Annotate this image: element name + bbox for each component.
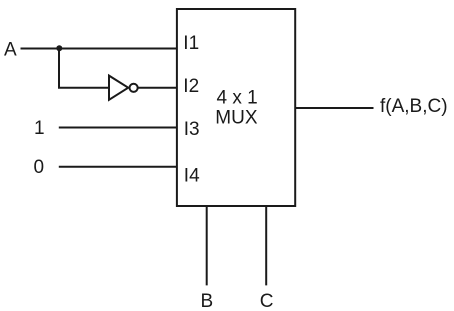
wire constant 0 to pin I4 xyxy=(59,166,177,168)
svg-text:C: C xyxy=(260,291,274,311)
mux U2 body xyxy=(177,9,295,206)
svg-text:I4: I4 xyxy=(184,165,200,186)
svg-text:A: A xyxy=(4,39,17,60)
svg-text:f(A,B,C): f(A,B,C) xyxy=(380,96,448,117)
inverter U1 triangle xyxy=(109,76,128,100)
svg-text:I2: I2 xyxy=(183,76,199,97)
svg-text:I3: I3 xyxy=(184,119,200,140)
junction on node A xyxy=(56,45,62,51)
wire junction down to inverter xyxy=(58,49,60,88)
svg-text:B: B xyxy=(201,291,214,311)
svg-text:0: 0 xyxy=(34,157,45,178)
wire output to node f xyxy=(295,107,373,109)
inverter U1 bubble xyxy=(130,84,138,92)
svg-text:MUX: MUX xyxy=(215,108,258,129)
wire inverter output to pin I2 xyxy=(138,87,177,89)
svg-text:I1: I1 xyxy=(183,33,199,54)
wire constant 1 to pin I3 xyxy=(59,127,177,129)
wire select C xyxy=(265,206,267,285)
svg-text:1: 1 xyxy=(34,118,45,139)
svg-text:4 x 1: 4 x 1 xyxy=(217,88,258,109)
wire A to pin I1 xyxy=(21,48,177,50)
wire select B xyxy=(206,206,208,285)
wire to inverter input xyxy=(58,87,110,89)
